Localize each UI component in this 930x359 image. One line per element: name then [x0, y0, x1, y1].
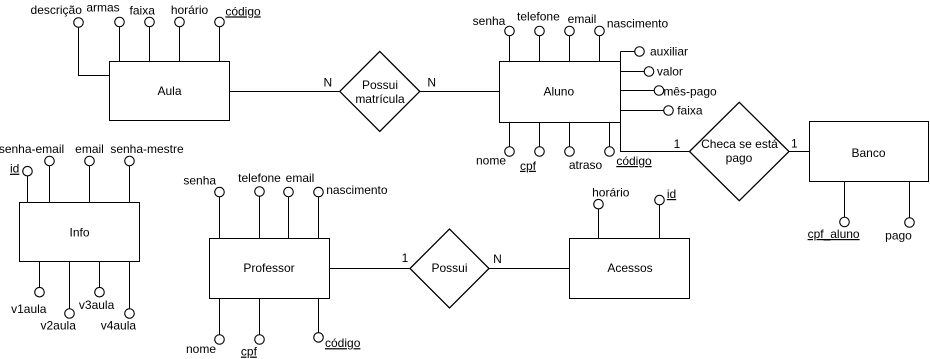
- svg-text:atraso: atraso: [569, 158, 603, 172]
- svg-text:N: N: [493, 252, 502, 266]
- svg-text:1: 1: [402, 251, 409, 265]
- svg-text:código: código: [325, 336, 361, 350]
- attribute horario of Acessos: [598, 209, 600, 239]
- svg-text:cpf: cpf: [241, 345, 258, 359]
- attribute senha-email of Info: [49, 166, 51, 203]
- attribute email of Info: [89, 166, 91, 203]
- attribute mes-pago of Aluno: [621, 90, 655, 92]
- svg-text:Aluno: Aluno: [543, 85, 574, 99]
- svg-text:senha-mestre: senha-mestre: [110, 142, 184, 156]
- svg-text:email: email: [568, 12, 597, 26]
- relationship diamond Possui: [410, 229, 489, 308]
- svg-text:pago: pago: [726, 151, 753, 165]
- attribute faixa of Aluno: [621, 110, 665, 112]
- attribute pago of Banco: [909, 182, 911, 219]
- attribute cpf of Professor (key): [259, 299, 261, 336]
- attribute senha of Aluno: [509, 36, 511, 62]
- svg-text:senha: senha: [183, 174, 216, 188]
- attribute senha-mestre of Info: [129, 166, 131, 203]
- svg-text:Info: Info: [69, 225, 89, 239]
- svg-text:Possui: Possui: [431, 261, 467, 275]
- attribute v2aula of Info: [69, 262, 71, 310]
- attribute v3aula of Info: [99, 262, 101, 288]
- svg-text:id: id: [667, 187, 676, 201]
- svg-text:Possui: Possui: [362, 78, 398, 92]
- svg-text:horário: horário: [171, 3, 209, 17]
- svg-text:Checa se está: Checa se está: [701, 137, 778, 151]
- svg-text:1: 1: [674, 137, 681, 151]
- attribute auxiliar of Aluno: [621, 51, 636, 53]
- svg-text:telefone: telefone: [517, 10, 560, 24]
- entity Info: [20, 203, 140, 262]
- attribute v4aula of Info: [129, 262, 131, 310]
- attribute email of Aluno: [569, 36, 571, 62]
- attribute descricao of Aula: [79, 27, 110, 76]
- wire Aula to Possui matricula: [230, 91, 340, 93]
- svg-text:1: 1: [791, 137, 798, 151]
- svg-text:Aula: Aula: [157, 84, 181, 98]
- svg-text:senha: senha: [473, 14, 506, 28]
- svg-text:v2aula: v2aula: [41, 318, 77, 332]
- wire Aluno right trunk: [621, 52, 691, 152]
- svg-text:mês-pago: mês-pago: [663, 84, 717, 98]
- attribute nome of Aluno: [509, 123, 511, 148]
- attribute cpf of Aluno (key): [539, 123, 541, 147]
- relationship diamond Possui matricula: [340, 51, 420, 131]
- entity Professor: [210, 239, 330, 299]
- svg-text:nome: nome: [186, 342, 216, 356]
- wire Possui matricula to Aluno: [420, 91, 500, 93]
- svg-text:v4aula: v4aula: [101, 318, 137, 332]
- wire Checa se esta pago to Banco: [789, 151, 810, 153]
- entity Banco: [810, 122, 929, 182]
- attribute id of Info (key): [27, 176, 29, 203]
- svg-text:horário: horário: [592, 186, 630, 200]
- relationship diamond Checa se esta pago: [690, 102, 790, 201]
- entity Aula: [110, 62, 230, 121]
- svg-text:código: código: [225, 4, 261, 18]
- attribute valor of Aluno: [621, 71, 645, 73]
- svg-text:email: email: [75, 142, 104, 156]
- wire Possui to Acessos: [489, 268, 570, 270]
- svg-text:N: N: [427, 76, 436, 90]
- attribute v1aula of Info: [39, 262, 41, 288]
- svg-text:id: id: [10, 162, 19, 176]
- svg-text:email: email: [286, 171, 315, 185]
- attribute telefone of Professor: [259, 196, 261, 239]
- svg-text:v3aula: v3aula: [79, 298, 115, 312]
- svg-text:telefone: telefone: [238, 171, 281, 185]
- svg-text:nascimento: nascimento: [326, 183, 388, 197]
- svg-text:nome: nome: [476, 154, 506, 168]
- attribute codigo of Aluno (key): [609, 123, 611, 148]
- attribute armas of Aula: [119, 26, 121, 61]
- svg-text:cpf: cpf: [520, 159, 537, 173]
- svg-text:v1aula: v1aula: [11, 302, 47, 316]
- attribute nascimento of Aluno: [599, 36, 601, 62]
- entity Aluno: [500, 62, 621, 123]
- svg-text:N: N: [323, 76, 332, 90]
- attribute id of Acessos (key): [659, 205, 661, 239]
- svg-text:descrição: descrição: [31, 3, 83, 17]
- svg-text:cpf_aluno: cpf_aluno: [808, 227, 860, 241]
- svg-text:armas: armas: [86, 1, 119, 15]
- attribute nascimento of Professor: [318, 197, 320, 239]
- attribute cpf_aluno of Banco (key): [844, 182, 846, 218]
- svg-text:pago: pago: [885, 229, 912, 243]
- svg-text:faixa: faixa: [130, 3, 156, 17]
- attribute nome of Professor: [219, 299, 221, 336]
- svg-text:Banco: Banco: [851, 146, 885, 160]
- svg-text:nascimento: nascimento: [607, 17, 669, 31]
- attribute senha of Professor: [219, 197, 221, 239]
- attribute faixa of Aula: [149, 26, 151, 61]
- svg-text:código: código: [616, 154, 652, 168]
- svg-text:matrícula: matrícula: [355, 92, 405, 106]
- attribute codigo of Professor (key): [318, 299, 320, 334]
- svg-text:faixa: faixa: [677, 104, 703, 118]
- svg-text:valor: valor: [657, 65, 683, 79]
- attribute horario of Aula: [179, 26, 181, 61]
- svg-text:Professor: Professor: [243, 261, 294, 275]
- svg-text:senha-email: senha-email: [0, 142, 64, 156]
- attribute atraso of Aluno: [569, 123, 571, 148]
- attribute codigo of Aula (key): [219, 26, 221, 61]
- attribute email of Professor: [288, 196, 290, 239]
- wire Professor to Possui: [330, 268, 411, 270]
- svg-text:Acessos: Acessos: [607, 261, 652, 275]
- svg-text:auxiliar: auxiliar: [650, 45, 688, 59]
- entity Acessos: [570, 239, 690, 299]
- attribute telefone of Aluno: [539, 36, 541, 62]
